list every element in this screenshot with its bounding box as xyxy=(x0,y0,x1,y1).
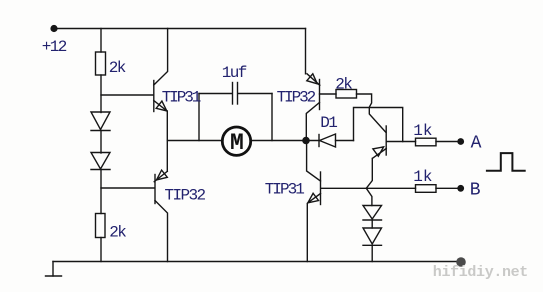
svg-text:1uf: 1uf xyxy=(222,64,247,82)
svg-text:TIP32: TIP32 xyxy=(277,88,316,106)
svg-text:M: M xyxy=(230,130,244,156)
svg-text:1k: 1k xyxy=(413,168,432,186)
svg-text:1k: 1k xyxy=(413,122,432,140)
svg-text:A: A xyxy=(471,134,482,154)
svg-text:2k: 2k xyxy=(109,223,126,241)
svg-text:TIP31: TIP31 xyxy=(162,89,201,107)
svg-text:+12: +12 xyxy=(42,38,67,56)
svg-text:B: B xyxy=(470,180,481,200)
svg-text:hifidiy.net: hifidiy.net xyxy=(433,264,528,281)
svg-text:TIP31: TIP31 xyxy=(265,180,304,198)
svg-text:TIP32: TIP32 xyxy=(165,187,206,205)
svg-text:D1: D1 xyxy=(320,114,337,132)
svg-text:2k: 2k xyxy=(109,59,126,77)
svg-text:2k: 2k xyxy=(335,76,352,94)
